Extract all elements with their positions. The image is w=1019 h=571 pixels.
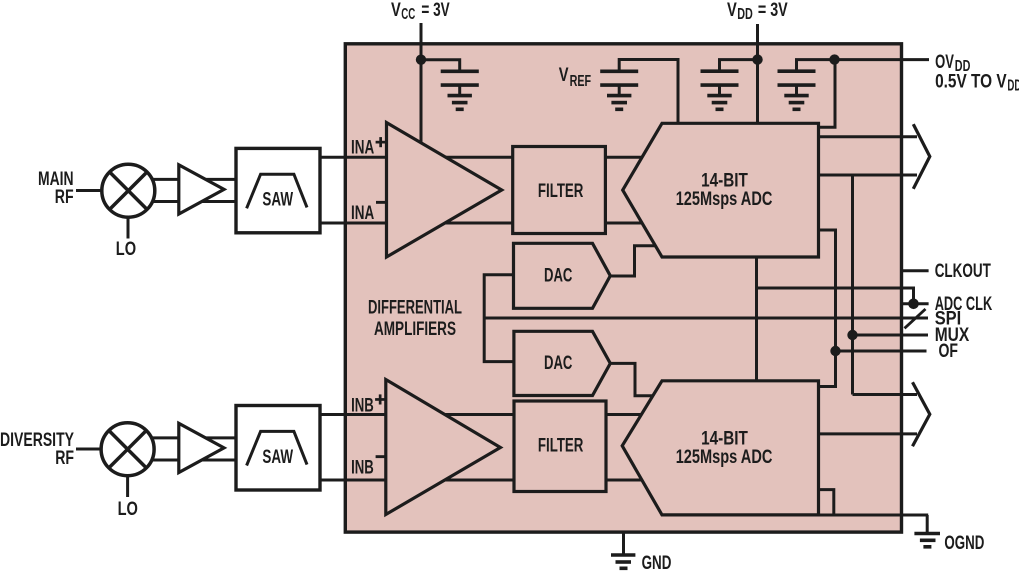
op-amp A (differential amplifier) xyxy=(387,123,502,257)
wire OVDD rail xyxy=(835,58,930,61)
svg-text:V: V xyxy=(727,0,737,21)
wire mixer B to SAW B (upper) xyxy=(150,436,237,439)
wire VCC supply xyxy=(420,23,423,144)
node OVDD junction xyxy=(829,54,839,64)
output bus arrow B xyxy=(913,382,930,446)
svg-text:INB: INB xyxy=(351,395,374,416)
SAW bandpass symbol B xyxy=(247,431,307,465)
mixer B xyxy=(101,423,154,476)
amplifier B xyxy=(179,423,224,472)
ground for C2 xyxy=(607,96,631,110)
svg-text:CC: CC xyxy=(401,6,415,23)
FILTER A box xyxy=(513,147,606,234)
svg-text:RF: RF xyxy=(55,187,74,208)
svg-text:FILTER: FILTER xyxy=(538,436,584,457)
wire mixer B to SAW B (lower) xyxy=(150,459,237,462)
svg-text:LO: LO xyxy=(118,499,138,520)
capacitor C1 plates xyxy=(441,70,479,74)
ADC B block xyxy=(622,381,818,515)
wire LO stub A xyxy=(127,218,130,239)
svg-text:INA: INA xyxy=(351,203,374,224)
svg-text:V: V xyxy=(391,0,401,21)
SAW bandpass symbol A xyxy=(247,174,307,208)
SAW filter A box xyxy=(236,148,320,232)
ground GND xyxy=(622,533,625,555)
bus width slash on SPI xyxy=(905,309,926,328)
wire FILTER B to ADC B (upper) xyxy=(606,413,648,416)
svg-text:DIFFERENTIAL: DIFFERENTIAL xyxy=(368,298,462,319)
node OF junction xyxy=(830,346,840,356)
output bus arrow A xyxy=(913,124,930,189)
ground OGND xyxy=(926,515,929,533)
wire MAIN RF to mixer A xyxy=(76,189,102,192)
wire FILTER B to ADC B (lower) xyxy=(606,479,648,482)
ADC A block xyxy=(623,123,819,257)
amplifier A xyxy=(179,165,224,214)
svg-text:CLKOUT: CLKOUT xyxy=(935,261,991,282)
svg-text:DD: DD xyxy=(737,6,753,23)
wire DAC B output to ADC B xyxy=(610,363,660,395)
wire SPI fork to DAC A xyxy=(484,275,514,362)
DAC B block xyxy=(514,331,610,395)
wire INA+ : SAW A to FILTER A xyxy=(320,156,514,159)
wire VCC to bypass cap C1 xyxy=(421,60,460,72)
SAW filter B box xyxy=(236,406,320,491)
svg-text:SAW: SAW xyxy=(262,190,293,211)
wire ADC CLK stub xyxy=(902,302,929,305)
svg-text:OF: OF xyxy=(939,341,959,362)
wire VDD supply xyxy=(756,24,759,124)
wire DIVERSITY RF to mixer B xyxy=(76,448,102,451)
node ADC CLK junction xyxy=(908,299,919,310)
FILTER B box xyxy=(514,401,606,492)
wire CLKOUT stub xyxy=(902,269,929,272)
svg-text:GND: GND xyxy=(642,553,672,571)
node VCC junction xyxy=(416,55,426,65)
wire OGND xyxy=(816,514,928,517)
chip body xyxy=(345,44,901,532)
svg-text:V: V xyxy=(559,65,569,86)
wire ADC A output bus 2 xyxy=(818,174,917,177)
wire ADC A to node OF vertical xyxy=(818,230,836,387)
capacitor C3 plates xyxy=(701,69,739,73)
wire SPI bus xyxy=(484,317,928,320)
wire LO stub B xyxy=(126,476,129,497)
svg-text:= 3V: = 3V xyxy=(421,0,450,21)
wire ADC A output bus 1 xyxy=(818,135,917,138)
wire ADC B output bus 2 xyxy=(818,432,917,435)
wire OVDD down to ADC A output stage xyxy=(818,60,835,128)
svg-text:INA: INA xyxy=(351,138,374,159)
svg-text:SAW: SAW xyxy=(262,447,293,468)
ground for C3 xyxy=(707,96,731,110)
wire OVDD rail to bypass cap C4 xyxy=(797,60,835,72)
wire INB- : SAW B to FILTER B xyxy=(320,479,514,482)
ground for C1 xyxy=(448,96,472,110)
svg-text:125Msps ADC: 125Msps ADC xyxy=(676,189,773,210)
wire MUX stub xyxy=(853,334,929,337)
wire FILTER A to ADC A (lower) xyxy=(605,222,648,225)
svg-text:INB: INB xyxy=(351,458,374,479)
svg-text:0.5V TO V: 0.5V TO V xyxy=(935,72,1007,93)
wire clock distribution vertical xyxy=(755,257,758,381)
svg-text:LO: LO xyxy=(116,239,136,260)
svg-text:REF: REF xyxy=(570,73,592,90)
wire INA- : SAW A to FILTER A xyxy=(320,222,514,225)
svg-text:DAC: DAC xyxy=(544,353,573,374)
svg-text:DAC: DAC xyxy=(544,266,573,287)
svg-text:AMPLIFIERS: AMPLIFIERS xyxy=(374,319,456,340)
capacitor C2 plates (VREF bypass) xyxy=(600,70,638,74)
wire OF stub xyxy=(836,350,927,353)
svg-text:125Msps ADC: 125Msps ADC xyxy=(676,447,773,468)
wire mixer A to SAW A (upper) xyxy=(150,178,237,181)
svg-text:OGND: OGND xyxy=(944,533,984,554)
wire mixer A to SAW A (lower) xyxy=(150,200,237,203)
svg-text:RF: RF xyxy=(55,448,74,469)
wire INB+ : SAW B to FILTER B xyxy=(320,413,514,416)
mixer A xyxy=(102,164,155,217)
svg-text:= 3V: = 3V xyxy=(758,0,788,21)
wire ADC B output bus 1 xyxy=(853,393,918,396)
wire bus2 to node MUX vertical xyxy=(851,175,854,395)
wire VDD to bypass cap C3 xyxy=(720,60,758,72)
svg-text:OV: OV xyxy=(935,52,954,73)
wire FILTER A to ADC A (upper) xyxy=(605,156,648,159)
wire DAC A output to ADC A xyxy=(610,246,658,276)
wire ADC CLK internal xyxy=(757,288,914,304)
wire ADC B to OGND rail xyxy=(818,490,834,515)
wire VREF to ADC A xyxy=(619,60,678,124)
capacitor C4 plates xyxy=(778,69,816,73)
svg-text:FILTER: FILTER xyxy=(538,181,584,202)
node MUX junction xyxy=(847,330,857,340)
op-amp B (differential amplifier) xyxy=(386,380,501,515)
svg-text:DD: DD xyxy=(1007,78,1019,95)
DAC A block xyxy=(514,243,611,308)
node VDD junction xyxy=(752,54,762,64)
ground for C4 xyxy=(784,96,808,110)
